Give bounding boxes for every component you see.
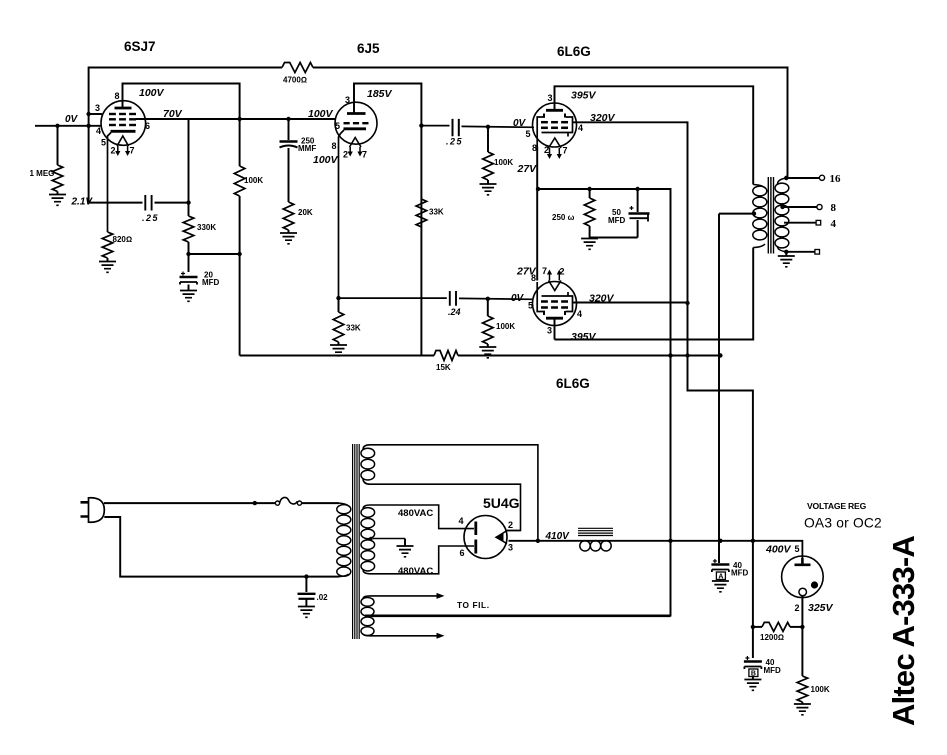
svg-text:410V: 410V bbox=[545, 531, 571, 542]
svg-text:2.1V: 2.1V bbox=[71, 197, 94, 208]
svg-text:2: 2 bbox=[111, 146, 116, 156]
svg-text:1 MEG: 1 MEG bbox=[30, 169, 55, 178]
svg-text:5: 5 bbox=[335, 121, 340, 131]
svg-text:5: 5 bbox=[795, 544, 800, 554]
svg-text:8: 8 bbox=[332, 141, 337, 151]
svg-text:100V: 100V bbox=[308, 108, 334, 120]
svg-text:MFD: MFD bbox=[764, 666, 782, 675]
svg-text:MFD: MFD bbox=[202, 278, 220, 287]
svg-text:5U4G: 5U4G bbox=[483, 495, 520, 511]
svg-text:.25: .25 bbox=[142, 213, 159, 223]
svg-text:100K: 100K bbox=[244, 176, 263, 185]
svg-text:0V: 0V bbox=[65, 114, 79, 125]
svg-text:320V: 320V bbox=[589, 293, 615, 305]
svg-text:8: 8 bbox=[532, 143, 537, 153]
svg-text:480VAC: 480VAC bbox=[398, 566, 433, 577]
svg-text:7: 7 bbox=[542, 266, 547, 276]
svg-text:.02: .02 bbox=[317, 593, 329, 602]
svg-text:6J5: 6J5 bbox=[357, 41, 380, 56]
svg-text:6L6G: 6L6G bbox=[557, 44, 591, 59]
svg-text:0V: 0V bbox=[513, 118, 527, 129]
svg-text:3: 3 bbox=[508, 543, 513, 553]
svg-text:3: 3 bbox=[95, 103, 100, 113]
svg-text:MMF: MMF bbox=[298, 144, 316, 153]
svg-text:33K: 33K bbox=[346, 324, 361, 333]
svg-text:20K: 20K bbox=[298, 208, 313, 217]
svg-text:5: 5 bbox=[526, 129, 531, 139]
svg-text:TO FIL.: TO FIL. bbox=[457, 600, 490, 610]
svg-text:100K: 100K bbox=[494, 158, 513, 167]
svg-text:6: 6 bbox=[460, 548, 465, 558]
svg-text:7: 7 bbox=[362, 150, 367, 160]
svg-text:27V: 27V bbox=[517, 163, 538, 175]
svg-text:4: 4 bbox=[459, 516, 464, 526]
svg-text:OA3 or OC2: OA3 or OC2 bbox=[804, 516, 882, 531]
svg-text:330K: 330K bbox=[197, 223, 216, 232]
svg-text:4: 4 bbox=[577, 309, 582, 319]
svg-text:2: 2 bbox=[343, 150, 348, 160]
svg-text:100K: 100K bbox=[811, 685, 830, 694]
svg-text:VOLTAGE REG: VOLTAGE REG bbox=[807, 501, 867, 511]
svg-text:0V: 0V bbox=[511, 293, 525, 304]
svg-text:MFD: MFD bbox=[731, 569, 749, 578]
svg-text:MFD: MFD bbox=[608, 216, 626, 225]
svg-text:3: 3 bbox=[345, 95, 350, 105]
svg-text:5: 5 bbox=[101, 138, 106, 148]
svg-text:320V: 320V bbox=[590, 112, 616, 124]
svg-text:325V: 325V bbox=[808, 602, 834, 614]
svg-text:395V: 395V bbox=[571, 331, 597, 343]
svg-text:6SJ7: 6SJ7 bbox=[124, 39, 156, 54]
svg-text:Altec A-333-A: Altec A-333-A bbox=[886, 536, 921, 726]
svg-text:480VAC: 480VAC bbox=[398, 508, 433, 519]
svg-text:185V: 185V bbox=[367, 88, 393, 100]
svg-text:7: 7 bbox=[563, 146, 568, 156]
svg-text:33K: 33K bbox=[429, 208, 444, 217]
svg-text:2: 2 bbox=[544, 145, 549, 155]
svg-text:2: 2 bbox=[795, 603, 800, 613]
svg-text:5: 5 bbox=[528, 301, 533, 311]
svg-text:3: 3 bbox=[548, 93, 553, 103]
svg-text:250 ω: 250 ω bbox=[552, 213, 575, 222]
svg-text:15K: 15K bbox=[436, 363, 451, 372]
svg-text:2: 2 bbox=[508, 520, 513, 530]
svg-text:1200Ω: 1200Ω bbox=[760, 633, 784, 642]
svg-text:8: 8 bbox=[115, 91, 120, 101]
svg-text:395V: 395V bbox=[571, 90, 597, 102]
svg-text:70V: 70V bbox=[163, 108, 183, 120]
svg-text:7: 7 bbox=[130, 146, 135, 156]
svg-text:8: 8 bbox=[531, 273, 536, 283]
svg-text:.25: .25 bbox=[446, 137, 463, 147]
svg-text:6: 6 bbox=[145, 121, 150, 131]
svg-text:3: 3 bbox=[547, 326, 552, 336]
svg-text:100V: 100V bbox=[139, 87, 165, 99]
svg-text:4: 4 bbox=[96, 126, 101, 136]
svg-text:4: 4 bbox=[578, 123, 583, 133]
svg-text:100V: 100V bbox=[313, 154, 339, 166]
svg-text:.24: .24 bbox=[448, 307, 461, 317]
svg-text:4700Ω: 4700Ω bbox=[283, 76, 307, 85]
svg-text:100K: 100K bbox=[496, 322, 515, 331]
svg-text:4: 4 bbox=[831, 218, 837, 230]
svg-text:8: 8 bbox=[831, 202, 837, 214]
svg-text:6L6G: 6L6G bbox=[556, 376, 590, 391]
svg-text:2: 2 bbox=[560, 267, 565, 277]
svg-text:820Ω: 820Ω bbox=[113, 235, 133, 244]
svg-text:16: 16 bbox=[830, 173, 842, 185]
svg-text:400V: 400V bbox=[765, 544, 792, 556]
